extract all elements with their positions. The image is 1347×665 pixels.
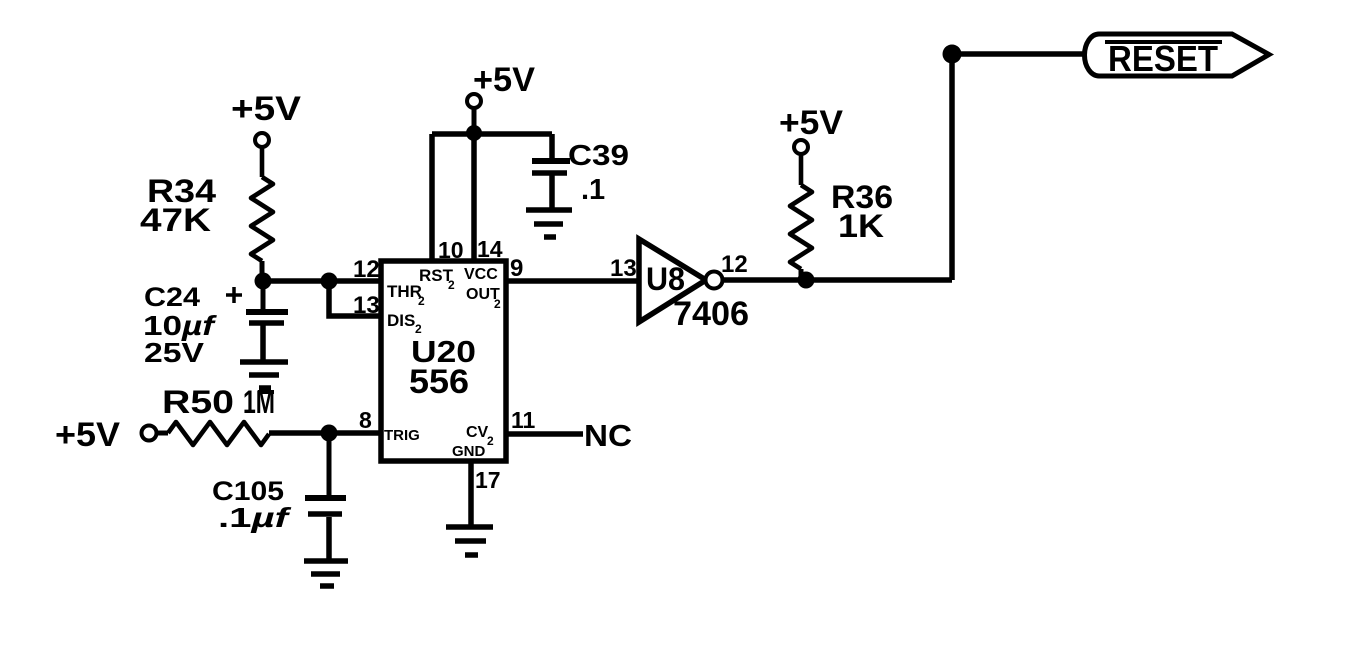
label C39 .1 [568,140,629,206]
wire +5V terminal to R36 [799,154,804,185]
ground (C105) [304,561,348,586]
node A junction dot [255,273,272,290]
wire to pin 10 [429,134,435,261]
node B junction dot [321,273,338,290]
wire +5V terminal to R34 [260,147,265,177]
wire node F to C105 [327,433,332,496]
svg-text:13: 13 [353,292,380,319]
svg-text:7406: 7406 [673,295,749,333]
power +5V terminal (R34 branch) [255,133,269,147]
wire C105 to ground [326,517,332,561]
svg-text:47K: 47K [140,202,211,238]
svg-text:556: 556 [409,363,469,401]
svg-text:R50: R50 [162,384,234,420]
label C105 .1uf [212,476,292,533]
svg-text:C24: C24 [144,282,200,312]
wire U8 output to corner [723,277,952,283]
label R34 47K [140,173,216,238]
IC U20 556 timer body [381,261,506,461]
svg-text:2: 2 [487,434,494,448]
ground (U20 GND pin) [446,527,493,555]
label C24 10uf 25V [143,282,217,368]
svg-text:GND: GND [452,443,486,460]
svg-text:+5V: +5V [231,90,301,128]
svg-text:VCC: VCC [464,266,498,283]
wire pin 7 GND to ground [468,461,474,527]
wire node A to C24 [261,281,266,310]
svg-text:1K: 1K [838,208,884,244]
svg-text:C39: C39 [568,140,629,172]
svg-text:2: 2 [418,294,425,308]
wire R50 to pin 8 of U20 [269,430,383,436]
capacitor C105 [305,495,346,501]
label R36 1K [831,179,893,244]
pin label CV2 [466,424,494,448]
wire node B to pin 13 of U20 [329,281,383,316]
wire C24 to ground [260,325,266,362]
node E corner dot [943,45,962,64]
svg-text:1M: 1M [243,384,275,420]
svg-text:RESET: RESET [1108,38,1218,79]
wire R34 to node A [260,261,265,281]
node RESET overbar [1105,40,1222,44]
svg-text:+5V: +5V [779,104,843,142]
svg-text:NC: NC [584,418,632,453]
pin label THR2 [387,282,425,308]
svg-text:U8: U8 [646,261,685,297]
pin label DIS2 [387,311,422,336]
power +5V terminal (VCC branch) [467,94,481,108]
power +5V terminal (R50 branch) [142,426,157,441]
svg-text:25V: 25V [144,337,204,368]
capacitor C24 polarity plus [226,287,242,303]
svg-text:9: 9 [510,255,523,282]
ground (C24) [240,362,288,388]
wire C39 to ground [549,175,555,210]
wire to pin 14 [471,134,477,261]
capacitor C105 second plate [308,511,342,517]
capacitor C39 [532,158,570,164]
ground (C39) [526,210,572,237]
label R50 1M [162,384,275,420]
capacitor C39 second plate [532,170,567,176]
svg-text:14: 14 [477,236,503,262]
node RESET flag outline [1085,34,1270,76]
resistor R50 [168,422,269,445]
resistor R36 [790,185,812,269]
wire pin 11 CV2 to NC [506,431,583,437]
svg-text:.1µf: .1µf [218,502,292,533]
inverter U8 7406 triangle [639,239,706,322]
pin label RST2 [419,266,455,292]
resistor R34 [251,177,273,261]
svg-text:10: 10 [438,237,464,263]
pin label OUT2 [466,286,501,311]
svg-text:+5V: +5V [473,61,535,99]
node F junction dot [321,425,338,442]
svg-text:CV: CV [466,424,489,441]
svg-text:13: 13 [610,255,637,282]
wire R36 to node D [801,269,806,280]
inverter U8 output bubble [706,272,723,289]
wire VCC rail horizontal [432,131,552,137]
svg-text:12: 12 [721,251,748,278]
wire +5V terminal down [472,108,477,133]
svg-text:THR: THR [387,282,422,301]
node C junction dot [466,125,482,141]
svg-text:TRIG: TRIG [384,427,420,444]
capacitor C24 second plate [249,320,284,326]
label R50 1M overbar [258,390,274,394]
svg-text:+5V: +5V [55,416,120,454]
node D junction dot [798,272,815,289]
svg-text:.1: .1 [581,174,605,206]
wire to C39 [549,134,555,159]
svg-text:2: 2 [494,297,501,311]
wire corner vertical up [949,54,955,280]
power +5V terminal (R36 branch) [794,140,808,154]
wire pin 9 OUT2 to inverter input [506,278,640,284]
label U20 556 [409,334,476,401]
svg-text:17: 17 [475,467,501,493]
wire +5V terminal to R50 [156,431,168,436]
svg-text:12: 12 [353,256,380,283]
svg-text:11: 11 [511,407,536,433]
svg-text:8: 8 [359,407,372,433]
wire node A to pin 12 of U20 [263,278,383,284]
capacitor C24 [246,309,288,315]
svg-text:2: 2 [448,278,455,292]
svg-text:DIS: DIS [387,311,415,330]
wire to RESET flag [952,51,1086,57]
